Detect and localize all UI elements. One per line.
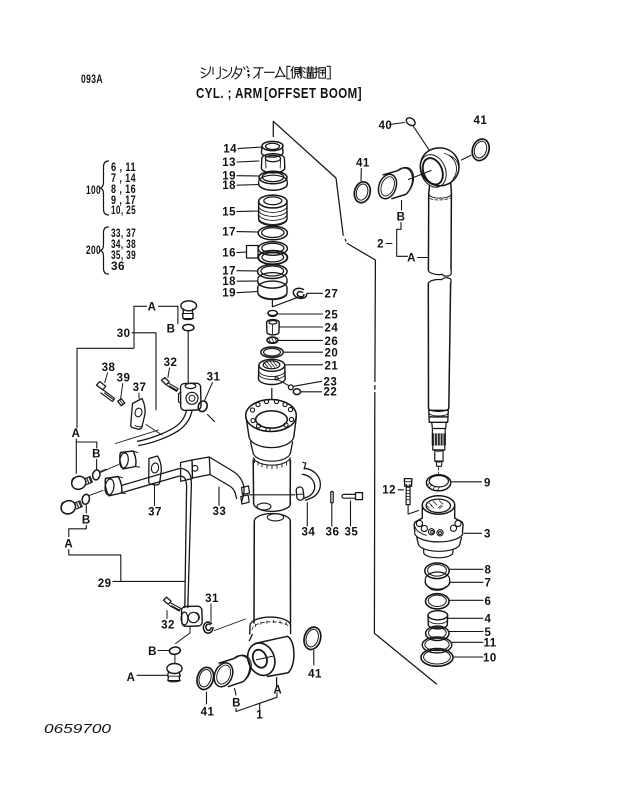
clamp bolt line through flanges [250,494,296,496]
ア [254,68,264,79]
svg-text:18: 18 [222,180,236,192]
゛ dakuten [244,66,249,69]
bracket 2 = A + B [377,212,416,265]
svg-text:27: 27 [325,289,339,301]
snap ring 27 (C-shape) [293,288,306,298]
ring 8 [425,563,449,579]
svg-text:9: 9 [484,478,491,490]
neck with thread band [251,442,293,469]
svg-text:19: 19 [222,288,236,300]
svg-text:200: 200 [86,245,101,257]
bushing 13 [261,154,284,173]
set screw 23 (ball) [278,380,293,390]
bushing B (rod eye bushing) [375,167,413,201]
ring 41 mid left [352,180,372,204]
ring 19b [258,281,287,300]
側 [291,67,302,79]
ring 9 [426,475,450,491]
svg-text:35: 35 [345,527,359,539]
right column labels for small parts [324,289,339,399]
svg-text:41: 41 [308,669,322,681]
svg-text:2: 2 [377,239,384,251]
ring 18a [259,175,288,190]
svg-text:17: 17 [222,227,236,239]
svg-text:0659700: 0659700 [44,721,112,736]
svg-text:26: 26 [325,336,339,348]
grease fitting 40 [405,116,417,127]
brace for 100 [101,161,109,215]
band half 34 (right strap) [296,462,320,500]
svg-text:13: 13 [222,157,236,169]
svg-text:21: 21 [325,361,339,373]
bolt 38 [97,382,115,402]
union fitting T1 [119,451,140,469]
svg-text:B: B [232,698,241,710]
rod tube upper [428,184,451,271]
svg-text:A: A [64,539,73,551]
elbow block (bottom) [181,606,202,626]
svg-text:A: A [148,302,157,314]
svg-text:18: 18 [222,276,236,288]
cylinder head bushing 3 [414,496,463,558]
svg-text:20: 20 [325,348,339,360]
piston 21 [258,359,285,384]
bolt 32 (upper) [162,378,179,392]
svg-text:37: 37 [148,507,162,519]
collar 24 [267,320,280,335]
ring 11 [422,637,452,653]
溝 [303,67,314,79]
svg-text:6: 6 [485,596,492,608]
o-ring 31 (upper) [197,400,215,422]
svg-text:41: 41 [201,707,215,719]
svg-text:34: 34 [302,527,316,539]
plug pair 1 [70,474,93,491]
タ [232,67,242,80]
second union T2 [104,477,125,496]
svg-text:36: 36 [326,527,340,539]
; [247,70,250,78]
rod tube lower [428,283,450,409]
bearing 4 [428,611,448,629]
rod head eye [416,148,460,191]
upper tube section [253,460,290,511]
labels 33 34 36 35 with leaders [213,506,359,539]
nut 25 [268,310,277,316]
title Japanese: シリンダ;アーム[側溝掘] [201,66,330,79]
] [327,66,330,79]
axis guide pair1 to T1 [101,465,119,473]
brace for 200 [101,227,109,274]
svg-text:B: B [397,212,406,224]
svg-text:B: B [82,515,91,527]
ring 41 bottom-left [194,665,216,691]
bottom collar [250,617,291,634]
svg-text:31: 31 [205,593,219,605]
pipe from elbow down-left to union (A pipe) [138,411,193,446]
leader A at clevis bottom [276,678,278,686]
ム [275,67,285,78]
ン [223,68,232,79]
bushing B bottom [211,655,252,689]
bolt 12 [398,479,419,514]
svg-text:3: 3 [484,529,491,541]
washer 26 [267,337,278,343]
guide from ring 31 to tube port [215,619,246,631]
stud 36 [331,492,333,504]
svg-text:CYL. ; ARM [OFFSET BOOM]: CYL. ; ARM [OFFSET BOOM] [196,85,362,102]
svg-text:30: 30 [117,328,131,340]
svg-text:10: 10 [483,653,497,665]
labels right lower column [382,478,497,665]
bolt 32 (lower) [164,597,181,611]
leader lines for stack labels [237,147,262,293]
pipe 2 from T2 right then down (29 pipe) [122,469,192,493]
stack labels left column [222,144,237,300]
svg-text:11: 11 [484,638,497,650]
[ [287,66,290,79]
svg-text:B: B [167,324,176,336]
svg-text:A: A [72,428,81,440]
svg-text:39: 39 [117,373,131,385]
svg-text:16: 16 [222,248,236,260]
o-ring 31 (lower, C shape) [203,622,213,633]
svg-text:15: 15 [222,207,236,219]
ring 10 [421,649,453,667]
plug 22 [293,389,300,395]
svg-text:4: 4 [485,614,492,626]
svg-text:31: 31 [207,372,221,384]
bolt 35 (band clamp bolt) [342,493,363,500]
svg-text:A: A [407,253,416,265]
svg-text:12: 12 [382,485,396,497]
labels 40 and 41s (rod top) [356,115,487,170]
leader 40 to rod head [390,123,429,150]
掘 [315,67,326,79]
svg-text:10, 25: 10, 25 [111,205,136,217]
svg-text:36: 36 [111,261,125,273]
svg-text:29: 29 [98,578,112,590]
elbow block (top) [179,383,202,410]
o-ring 20 [261,347,283,358]
rod tube break [428,270,451,283]
svg-text:38: 38 [102,362,116,374]
svg-text:22: 22 [324,387,338,399]
seal set 16 (two rings + section box) [247,242,288,265]
clevis eye (bottom) [243,635,294,680]
svg-text:14: 14 [223,144,237,156]
o-ring B (bottom group) [169,646,181,655]
svg-text:32: 32 [161,620,175,632]
svg-text:100: 100 [86,185,101,197]
svg-text:8: 8 [485,565,492,577]
o-ring pair 2 [81,490,103,505]
lower tube section with break [254,513,291,623]
clamp 37 (upper) [131,399,145,430]
ring 6 [426,594,450,609]
svg-text:A: A [127,672,136,684]
plug pair 2 [59,499,82,517]
ring 17a [258,226,287,240]
leader from stack to 27 ring [272,297,298,307]
svg-text:32: 32 [164,357,178,369]
svg-text:A: A [273,685,282,697]
o-ring pair 1 [92,469,107,480]
leader elbow to B/A parts [176,627,191,644]
ー [265,71,275,73]
ring 18b [258,273,287,289]
leader piston to cylinder [271,389,273,400]
ring 7 [425,572,449,590]
リ [213,67,220,79]
ring 41 bottom-right [301,625,323,651]
plug A (bottom group) [167,664,182,682]
svg-text:25: 25 [325,310,339,322]
svg-text:7: 7 [485,578,492,590]
svg-text:B: B [92,449,101,461]
svg-text:41: 41 [474,115,488,127]
axis leader into bore [409,171,432,180]
svg-text:1: 1 [256,710,263,722]
svg-text:37: 37 [133,382,147,394]
ring 41 top right [470,137,492,163]
ring 19a [259,171,287,183]
plug A (top) [181,301,197,320]
ring 5 [426,626,449,640]
o-ring B (top) [183,324,194,330]
leader from o-ring B down to elbow [187,332,189,384]
bracket 33 (left strap with plate) [181,457,250,504]
leader B [401,201,403,211]
nut 39 [118,399,125,406]
svg-text:33: 33 [213,506,227,518]
シ [201,67,210,78]
svg-text:40: 40 [379,120,393,132]
wiper ring 14 [261,141,283,157]
svg-text:093A: 093A [81,74,103,86]
clamp 37 (lower) [149,456,162,485]
svg-text:24: 24 [325,323,339,335]
head flange with bolt holes [246,399,297,447]
svg-text:41: 41 [356,158,370,170]
group bracket 200 [86,228,136,273]
seal assy 15 [259,195,288,225]
svg-text:B: B [148,646,157,658]
dashed guide from clamp to pipe [146,425,162,436]
separator line between rod and cylinder views [273,121,436,684]
ring 17b [258,265,288,279]
rod end details [429,409,449,474]
group bracket 100 [86,162,136,217]
